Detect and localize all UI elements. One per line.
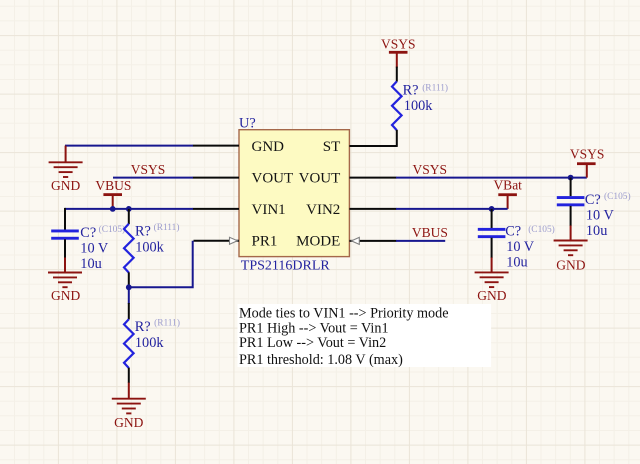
power port VSYS top [381, 36, 416, 67]
svg-text:PR1: PR1 [252, 234, 278, 250]
svg-text:GND: GND [114, 415, 143, 430]
ground GND under C2 [48, 258, 82, 304]
wire C3 bottom lead [491, 238, 493, 258]
wire capacitor C2 top lead [64, 208, 66, 230]
pin MODE input arrow [351, 237, 359, 244]
svg-text:Mode ties to VIN1 --> Priority: Mode ties to VIN1 --> Priority mode [239, 306, 449, 322]
svg-text:VBat: VBat [493, 177, 522, 192]
svg-text:GND: GND [556, 258, 585, 273]
svg-text:GND: GND [477, 288, 506, 303]
svg-text:C?: C? [80, 225, 96, 241]
svg-text:PR1 threshold: 1.08 V (max): PR1 threshold: 1.08 V (max) [239, 352, 403, 368]
svg-text:R?: R? [135, 224, 151, 240]
junction divider top [126, 206, 132, 212]
svg-text:VSYS: VSYS [131, 162, 166, 177]
svg-text:(R111): (R111) [154, 222, 180, 233]
pin VIN1 lead [193, 208, 239, 210]
junction VBUS stem [110, 206, 116, 212]
pin GND lead [193, 145, 239, 147]
pin ST lead [349, 145, 396, 147]
pin PR1 lead [194, 240, 240, 242]
svg-text:C?: C? [505, 224, 521, 240]
capacitor C4 [557, 196, 585, 206]
wire divider to R3 [128, 287, 130, 304]
wire GND net top-left [65, 145, 193, 147]
svg-text:C?: C? [585, 192, 601, 208]
note text block [238, 304, 492, 368]
svg-text:ST: ST [323, 139, 341, 155]
svg-text:PR1 Low --> Vout = Vin2: PR1 Low --> Vout = Vin2 [239, 335, 386, 351]
resistor R1 pull-up [392, 67, 402, 147]
junction divider mid [126, 284, 132, 290]
svg-text:PR1 High --> Vout = Vin1: PR1 High --> Vout = Vin1 [239, 320, 389, 336]
wire VSYS stub to VOUT [113, 177, 193, 179]
pin VOUT lead [193, 177, 239, 179]
svg-text:GND: GND [51, 178, 80, 193]
svg-text:(C105): (C105) [528, 224, 555, 235]
wire C4 bottom lead [570, 206, 572, 226]
wire VBUS net VIN1 [65, 208, 193, 210]
svg-text:R?: R? [403, 82, 419, 98]
wire PR1 net [129, 241, 193, 287]
wire capacitor C3 top lead [491, 209, 493, 228]
svg-text:(C105): (C105) [604, 191, 631, 202]
wire capacitor C4 top lead [570, 178, 572, 197]
svg-text:100k: 100k [135, 335, 164, 351]
svg-text:GND: GND [252, 139, 285, 155]
svg-text:VBUS: VBUS [412, 225, 448, 240]
power port VBUS left [95, 178, 131, 209]
svg-text:100k: 100k [135, 240, 164, 256]
svg-text:10 V: 10 V [80, 240, 109, 256]
pin PR1 input arrow [230, 237, 238, 244]
svg-text:TPS2116DRLR: TPS2116DRLR [241, 258, 331, 273]
svg-text:10u: 10u [586, 223, 607, 239]
resistor R2 divider top [124, 209, 134, 287]
ground GND under C3 [475, 258, 509, 304]
svg-text:10 V: 10 V [586, 207, 615, 223]
ground GND under R3 [112, 383, 146, 430]
svg-text:U?: U? [239, 116, 256, 132]
svg-text:VOUT: VOUT [252, 171, 294, 187]
svg-text:10u: 10u [80, 256, 101, 272]
capacitor C2 [51, 230, 79, 240]
junction VIN2 cap [489, 206, 495, 212]
power port VBat [493, 177, 522, 209]
svg-text:VSYS: VSYS [381, 36, 416, 51]
svg-text:VIN1: VIN1 [252, 202, 286, 218]
svg-text:(R111): (R111) [154, 317, 180, 328]
svg-text:R?: R? [135, 319, 151, 335]
junction VOUT cap [568, 175, 574, 181]
svg-text:VOUT: VOUT [299, 171, 341, 187]
wire VBUS stub to MODE [396, 240, 445, 242]
svg-text:MODE: MODE [296, 234, 340, 250]
svg-text:10u: 10u [506, 254, 527, 270]
svg-text:(C105): (C105) [99, 224, 126, 235]
svg-text:VIN2: VIN2 [306, 202, 340, 218]
op-amp U1 component body TPS2116 [239, 130, 349, 257]
wire VBat net VIN2 [396, 208, 508, 210]
svg-text:10 V: 10 V [506, 239, 535, 255]
capacitor C3 [478, 228, 506, 238]
power port VSYS right [570, 146, 605, 177]
svg-text:VSYS: VSYS [570, 146, 605, 161]
svg-text:(R111): (R111) [422, 83, 448, 94]
ground GND top-left [49, 146, 83, 193]
svg-text:VBUS: VBUS [95, 178, 131, 193]
resistor R3 divider bottom [124, 303, 134, 383]
ground GND under C4 [554, 226, 588, 273]
wire VSYS net VOUT right [396, 177, 587, 179]
svg-text:GND: GND [51, 288, 80, 303]
svg-text:VSYS: VSYS [413, 162, 448, 177]
wire C2 bottom lead [64, 239, 66, 258]
svg-text:100k: 100k [404, 98, 433, 114]
pin VOUT2 lead [349, 177, 396, 179]
pin VIN2 lead [349, 208, 396, 210]
pin MODE lead [349, 240, 396, 242]
